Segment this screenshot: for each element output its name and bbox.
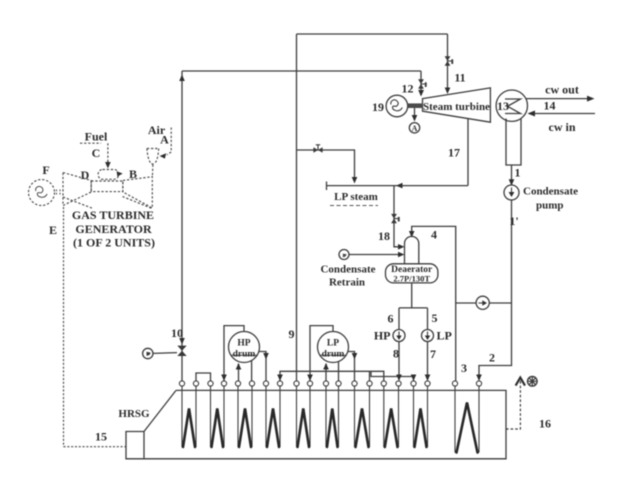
arrow cw in — [528, 111, 536, 117]
arrow stack up chevron — [516, 378, 525, 386]
LP feed pump circle — [422, 330, 434, 342]
LP steam dashed underline — [330, 205, 378, 207]
svg-text:7: 7 — [430, 347, 436, 361]
svg-text:6: 6 — [388, 312, 394, 326]
svg-text:11: 11 — [454, 71, 465, 85]
wire cw in line — [529, 113, 595, 115]
svg-text:cw out: cw out — [545, 83, 579, 97]
svg-text:Retrain: Retrain — [329, 277, 365, 289]
arrow fuel C into combustor — [105, 162, 111, 169]
LP drum water line — [321, 354, 346, 356]
HRSG heat exchanger coils — [183, 403, 478, 453]
svg-text:19: 19 — [372, 100, 384, 114]
condenser hotwell — [506, 119, 521, 166]
aux A drop line — [414, 108, 416, 120]
svg-text:5: 5 — [432, 311, 438, 325]
svg-text:A: A — [412, 124, 418, 133]
svg-text:HP: HP — [374, 329, 391, 343]
LP drum circle — [318, 332, 349, 363]
HRSG flange circles — [179, 381, 184, 386]
svg-text:Fuel: Fuel — [85, 130, 108, 144]
wire HP steam vertical line 10 — [181, 71, 183, 381]
pump internal arrow condensate — [509, 192, 515, 197]
wire deaerator tank outlet split — [399, 283, 428, 380]
exhaust duct E vertical — [63, 207, 65, 447]
HRSG tube bank rails — [179, 381, 481, 453]
turbine shaft — [408, 103, 423, 108]
arrow LP downcomer — [307, 375, 313, 382]
stub connector 369.5 — [369, 371, 371, 381]
return instrument internal mark — [343, 254, 347, 257]
header B — [371, 371, 414, 381]
arrow header B end — [411, 375, 417, 382]
arrow above condensate pump — [509, 179, 515, 186]
LP drum steam outlet — [348, 352, 355, 381]
combustor — [98, 170, 118, 180]
svg-text:A: A — [160, 133, 169, 147]
HP drum water line — [232, 354, 257, 356]
valve on line 18 — [391, 214, 397, 219]
HP feed pump circle — [393, 330, 405, 342]
arrow HP steam outlet down — [263, 353, 269, 360]
arrow line 12 into turbine — [418, 90, 424, 97]
valve on line 12 — [418, 79, 424, 84]
wire condensate return line — [349, 254, 402, 256]
svg-text:Steam turbine: Steam turbine — [423, 101, 490, 113]
wire condenser to pump line 1 — [511, 165, 513, 184]
svg-text:1: 1 — [515, 166, 521, 180]
svg-text:pump: pump — [536, 200, 564, 212]
deaerator tank — [386, 264, 438, 283]
arrowheads (filled) — [105, 75, 594, 386]
GT turbine section D — [63, 173, 91, 206]
flow meter circle — [476, 296, 489, 309]
wire line 18 to deaerator — [394, 186, 402, 247]
svg-text:12: 12 — [402, 82, 414, 96]
wire line 17 turbine extraction — [467, 119, 469, 186]
HP drum bottom pipe — [251, 361, 253, 381]
svg-text:17: 17 — [448, 146, 460, 160]
svg-text:18: 18 — [378, 229, 390, 243]
controller internal mark — [147, 352, 151, 356]
svg-text:4: 4 — [431, 228, 437, 242]
wire line 12 drop to turbine — [420, 71, 422, 95]
svg-text:2.7P/130T: 2.7P/130T — [393, 274, 430, 284]
arrow HP downcomer — [221, 375, 227, 382]
arrow LP branch down into header — [352, 177, 358, 184]
LP drum bottom pipe — [338, 361, 340, 381]
wire condensate pump discharge line 1' and 2 — [479, 200, 512, 380]
arrow air A into funnel — [160, 153, 167, 158]
HRSG group — [126, 390, 506, 458]
pump internal arrow LP — [425, 336, 430, 341]
condenser tube symbol — [505, 99, 521, 114]
air funnel to compressor duct — [151, 165, 154, 177]
arrow cw out — [587, 96, 595, 102]
arrow LP steam outlet down — [352, 353, 358, 360]
GT skirt right diagonal — [123, 197, 152, 209]
atmosphere symbol circle — [528, 377, 538, 387]
svg-text:13: 13 — [497, 99, 509, 113]
wire HP steam line 10 top horizontal — [182, 70, 421, 72]
wire line 4 deaerator feed — [412, 226, 456, 381]
LP drum downcomer — [310, 326, 333, 381]
aux A circle — [409, 123, 419, 133]
svg-text:(1 OF 2 UNITS): (1 OF 2 UNITS) — [73, 236, 155, 250]
HP drum circle — [229, 332, 260, 363]
arrow aux A — [412, 115, 418, 122]
wire controller to valve 10 — [153, 352, 177, 355]
svg-text:Condensate: Condensate — [320, 264, 375, 276]
svg-text:8: 8 — [393, 347, 399, 361]
fuel label underline — [80, 142, 101, 144]
wire cw out line — [526, 98, 591, 100]
svg-text:3: 3 — [461, 361, 467, 375]
svg-text:GAS TURBINE: GAS TURBINE — [72, 208, 154, 222]
svg-text:Condensate: Condensate — [523, 186, 578, 198]
valve on line 11 — [445, 56, 451, 61]
svg-text:drum: drum — [233, 350, 256, 360]
wire LP header end cap — [326, 182, 328, 191]
svg-text:GENERATOR: GENERATOR — [75, 222, 152, 236]
arrow line 8 into HRSG — [396, 375, 402, 382]
wire line 11 drop to turbine — [447, 34, 449, 92]
stack vent group — [506, 380, 520, 429]
svg-text:9: 9 — [289, 327, 295, 341]
arrow LP riser up — [323, 363, 329, 370]
pump inner arrow stems — [399, 188, 512, 337]
arrow line 7 into HRSG — [425, 375, 431, 382]
generator U19 squiggle — [391, 100, 402, 111]
meter internal arrow — [482, 300, 487, 305]
arrow on LP header pointing left — [396, 183, 403, 189]
exhaust duct E horizontal to HRSG — [64, 446, 126, 448]
air inlet funnel — [147, 149, 159, 165]
svg-text:drum: drum — [322, 350, 345, 360]
GT shaft box — [91, 181, 123, 192]
arrow HP riser up — [236, 363, 242, 370]
svg-text:HRSG: HRSG — [118, 408, 150, 420]
pump internal arrow HP — [396, 336, 401, 341]
arrow line 11 into turbine — [445, 88, 451, 95]
wire LP steam vertical line 9 — [296, 34, 298, 381]
wire LP steam header — [327, 185, 469, 187]
arrow condensate return into column — [398, 252, 405, 258]
fuel arrow solid segment — [107, 161, 109, 165]
svg-text:LP steam: LP steam — [334, 191, 378, 203]
generator F circle — [29, 180, 55, 206]
shaft coupling ticks — [57, 190, 61, 196]
condensate return instrument circle — [339, 250, 349, 260]
svg-text:E: E — [49, 223, 57, 237]
svg-text:16: 16 — [539, 417, 551, 431]
wire meter branch — [456, 302, 512, 304]
drums and roof piping — [196, 326, 414, 381]
valve stems — [316, 61, 512, 337]
svg-text:2: 2 — [489, 351, 495, 365]
stack dashed duct — [506, 380, 520, 429]
air label bracket — [167, 128, 171, 155]
arrow header A left leg — [277, 375, 283, 382]
wide coil at right — [457, 403, 478, 453]
fuel drop line — [107, 143, 109, 160]
arrow line 4 into column top — [409, 231, 415, 238]
HP drum downcomer — [224, 326, 244, 381]
valve on LP branch — [313, 147, 318, 153]
svg-text:F: F — [42, 163, 49, 177]
jumper pipe economizer — [196, 373, 211, 381]
generator F squiggle — [36, 161, 108, 198]
generator U19 circle — [386, 95, 408, 117]
svg-text:LP: LP — [437, 329, 452, 343]
arrow line 10 above valve — [179, 338, 185, 345]
deaerator column — [405, 236, 419, 263]
motor valve on line 10 — [177, 346, 186, 351]
HRSG casing outline — [126, 390, 506, 458]
condensate pump circle — [504, 185, 519, 200]
svg-text:10: 10 — [171, 326, 183, 340]
svg-text:B: B — [129, 167, 137, 181]
gas turbine generator unit (dashed) — [29, 128, 172, 447]
steam turbine body — [423, 88, 491, 122]
svg-text:14: 14 — [544, 99, 556, 113]
wire LP steam line 9 top horizontal — [297, 33, 448, 35]
svg-text:15: 15 — [95, 430, 107, 444]
compressor section B — [123, 177, 152, 208]
svg-text:LP: LP — [327, 339, 339, 349]
LP drum riser — [325, 364, 327, 381]
valves — [177, 56, 453, 356]
arrow line 18 into column — [398, 244, 405, 250]
condenser U13 circle — [496, 90, 527, 121]
GT skirt left diagonal — [63, 197, 93, 209]
wire LP steam branch — [297, 150, 355, 180]
svg-text:1': 1' — [509, 214, 518, 228]
HP drum riser — [238, 364, 240, 381]
svg-text:cw in: cw in — [549, 120, 576, 134]
arrow line 2 into HRSG — [476, 375, 482, 382]
HRSG inlet box edge — [143, 432, 145, 459]
HP drum steam outlet — [259, 352, 266, 381]
header A — [280, 371, 384, 381]
svg-text:D: D — [81, 168, 90, 182]
valve controller circle for line 10 — [143, 348, 153, 358]
arrow combustor to compressor — [117, 171, 123, 176]
arrow line 10 up at corner — [179, 75, 185, 82]
svg-text:HP: HP — [237, 339, 250, 349]
svg-text:C: C — [92, 146, 101, 160]
